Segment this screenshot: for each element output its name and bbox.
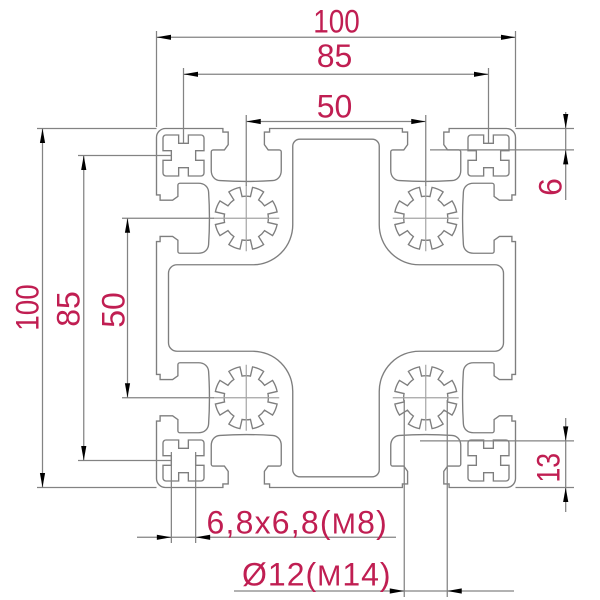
arrows 100 left: [40, 129, 45, 144]
ext O12 right: [446, 400, 448, 597]
ext 50 top-right: [425, 115, 427, 186]
dim line 13 right: [565, 418, 567, 512]
svg-text:85: 85: [317, 38, 353, 74]
arrows 13 right (outside): [563, 426, 568, 441]
ext 6 right-top: [516, 128, 575, 130]
ext 85 left-bottom: [78, 460, 171, 462]
dim line 85 left: [83, 156, 85, 461]
ext 50 top-left: [245, 115, 247, 186]
dim line O12 bottom: [234, 590, 514, 592]
dim line 6.8 bottom: [137, 536, 396, 538]
arrows 50 top: [246, 119, 261, 124]
dim line 6 right: [565, 112, 567, 200]
arrows 85 left: [81, 156, 86, 171]
arrows 50 left: [125, 218, 130, 233]
ext 13 right-top: [420, 440, 574, 442]
ext O12 left: [403, 400, 405, 597]
arrows 85 top: [184, 72, 199, 77]
ext 100 top-right: [515, 31, 517, 127]
ext 85 left: [78, 155, 171, 157]
arrows O12 bottom (outside): [390, 588, 405, 593]
arrows 6 right (outside): [563, 114, 568, 129]
spline core hole O12: [215, 187, 277, 249]
ext 6.8 left: [170, 452, 172, 543]
ext 13 right-bottom: [516, 487, 575, 489]
profile quadrant copy (bottom-left): [157, 308, 337, 488]
svg-text:6: 6: [533, 178, 569, 196]
ext 100 left-bottom: [37, 487, 157, 489]
svg-text:6,8x6,8(M8): 6,8x6,8(M8): [207, 505, 388, 541]
svg-text:Ø12(M14): Ø12(M14): [242, 557, 392, 593]
ext 85 top-right: [488, 68, 490, 143]
wire outer boundary with T-slot mouths: [157, 129, 337, 309]
dim line 50 top: [246, 121, 426, 123]
ext 50 left-bottom: [122, 397, 214, 399]
ext 100 top-left: [156, 31, 158, 127]
profile quadrant copy (top-right): [336, 129, 516, 309]
corner screw channel 6.8x6.8: [163, 135, 204, 176]
svg-text:100: 100: [313, 4, 360, 40]
ext 85 top-left: [183, 68, 185, 143]
dim line 100 left: [42, 129, 44, 488]
ext 6 right-bottom: [430, 149, 574, 151]
wire central cross cavity wall: [169, 139, 337, 308]
svg-text:100: 100: [10, 284, 46, 331]
node center lines: [213, 185, 279, 251]
dim line 50 left: [127, 218, 129, 398]
profile quadrant template (top-left): [157, 129, 337, 309]
ext 6.8 right: [195, 452, 197, 543]
svg-text:50: 50: [317, 89, 353, 125]
profile quadrant copy (bottom-right): [336, 308, 516, 488]
arrows 100 top: [157, 35, 172, 40]
svg-text:13: 13: [531, 453, 567, 483]
arrows 6.8 bottom (outside): [157, 535, 172, 540]
ext 100 left-top: [37, 128, 157, 130]
dim line 100 top: [157, 36, 516, 38]
dim line 85 top: [184, 73, 489, 75]
ext 50 left: [122, 217, 214, 219]
svg-text:50: 50: [96, 292, 132, 328]
svg-text:85: 85: [51, 291, 87, 327]
